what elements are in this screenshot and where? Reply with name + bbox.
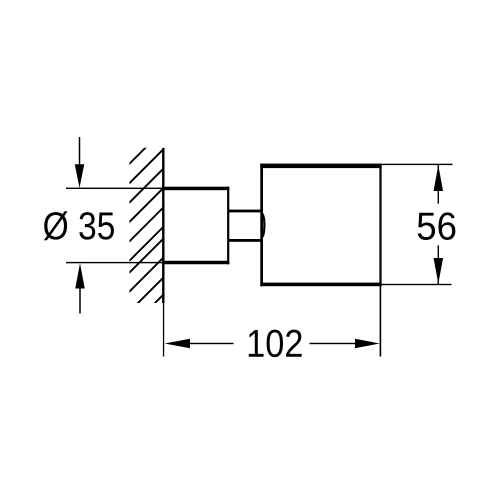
- mount flange top edge: [162, 187, 229, 191]
- connector post domed end arc: [262, 213, 264, 237]
- mount flange bottom edge: [162, 261, 229, 265]
- dim102 label: [249, 330, 302, 358]
- dim56 top arrow (up): [434, 165, 444, 191]
- dia35 bottom arrow (up): [75, 263, 85, 288]
- dim56 top extension line: [382, 164, 453, 165]
- wall line: [162, 148, 164, 303]
- connector post bottom line: [229, 239, 262, 242]
- wall hatching: [0, 100, 358, 360]
- wall extension line for 102: [163, 303, 164, 357]
- dia35 top arrow (down): [75, 164, 85, 188]
- dim102 left arrow: [165, 339, 190, 349]
- dia35 top extension line: [66, 188, 162, 189]
- dim102 right extension line: [380, 286, 382, 356]
- dia35 label: [44, 211, 114, 240]
- dia35 top arrow stem: [79, 137, 81, 165]
- cup bottom edge: [260, 283, 381, 287]
- dia35 bottom extension line: [66, 262, 162, 263]
- mount flange right edge: [227, 187, 229, 265]
- dim102 right arrow: [355, 339, 380, 349]
- connector post top line: [229, 210, 262, 213]
- dim56 label: [418, 212, 456, 240]
- dim56 bottom arrow (down): [434, 258, 444, 284]
- dim102 line left segment: [190, 343, 234, 344]
- dim56 line upper segment: [438, 165, 439, 204]
- dim56 bottom extension line: [382, 284, 452, 285]
- dia35 bottom arrow stem: [79, 288, 81, 314]
- dim56 line lower segment: [438, 245, 439, 284]
- cup right edge: [379, 164, 381, 287]
- dim102 line right segment: [310, 343, 357, 344]
- cup top edge: [260, 164, 381, 169]
- cup left edge: [260, 164, 263, 287]
